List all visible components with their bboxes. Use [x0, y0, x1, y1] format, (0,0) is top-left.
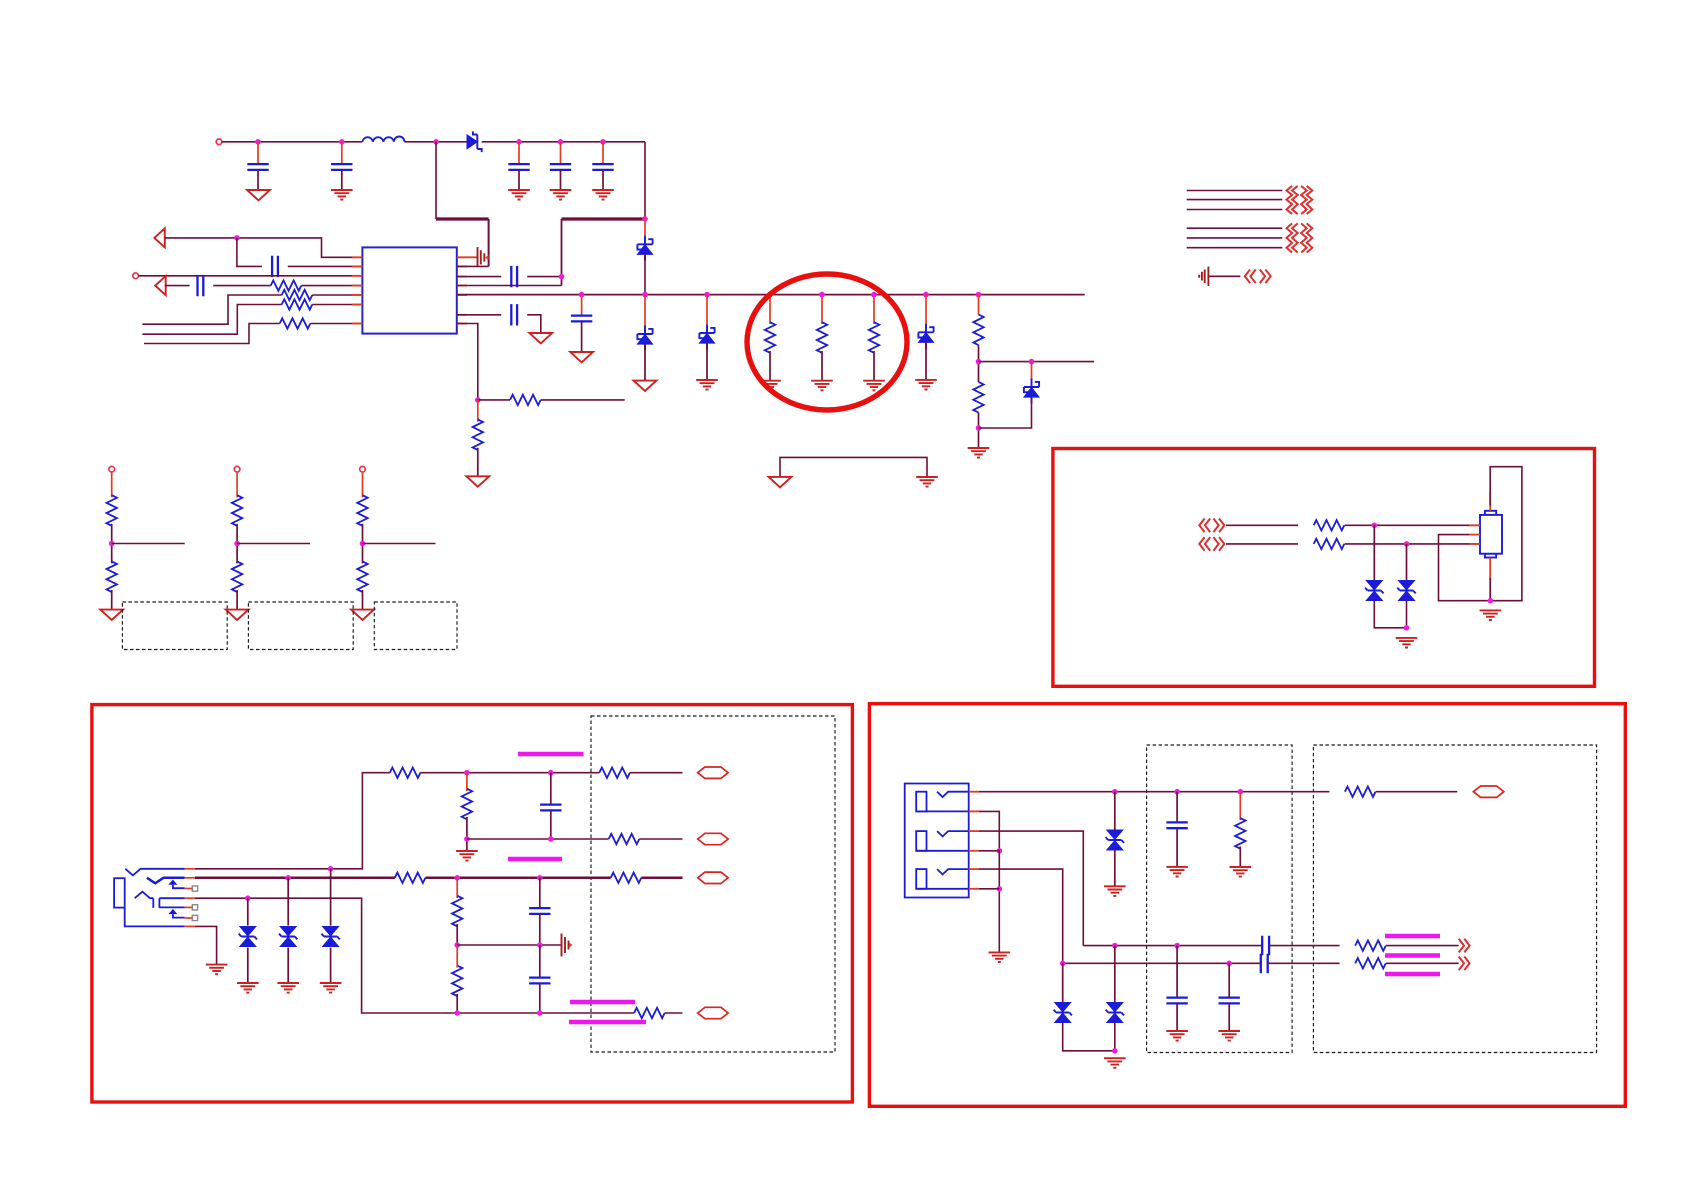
resistor R18: [452, 896, 462, 927]
wire R7 to ground: [769, 351, 771, 381]
wire to ground 1: [111, 590, 113, 610]
wire R4 to IC pin7: [310, 323, 362, 325]
IC U1: [362, 247, 456, 333]
junction node: [433, 139, 439, 145]
wire divider node 3: [362, 524, 364, 564]
resistor R5: [510, 395, 541, 405]
wire IC pin to node: [457, 285, 562, 287]
wire row2: [467, 838, 609, 840]
resistor R20: [1314, 520, 1345, 530]
divider resistor R2a: [232, 495, 242, 526]
input arrow P1: [154, 228, 165, 247]
divider resistor R1b: [107, 561, 117, 592]
wire C3 to ground: [518, 169, 520, 190]
junction node: [997, 848, 1003, 854]
ground (power) C9: [529, 333, 552, 343]
output oval A: [698, 767, 728, 778]
resistor R8: [817, 322, 827, 353]
divider R1a lead: [111, 472, 113, 497]
resistor R6: [473, 419, 483, 450]
IC pin stubs: [352, 257, 467, 323]
junction node: [454, 875, 460, 881]
audio jack J4: [114, 869, 185, 927]
wire sleeve: [195, 926, 217, 964]
earth ground rail: [916, 477, 938, 487]
wire C8 to node: [527, 276, 561, 278]
TVS D8 lead: [1406, 544, 1408, 581]
wire to ground 3: [362, 590, 364, 610]
wire bottom row: [442, 1012, 634, 1014]
junction node: [454, 942, 460, 948]
TVS diode D9: [1106, 830, 1124, 850]
capacitor C13 lead: [539, 945, 541, 978]
wire R14 to node: [466, 817, 468, 851]
earth ground D4: [696, 380, 718, 390]
resistor R24: [1355, 940, 1386, 950]
earth ground TVS: [320, 983, 342, 993]
resistor R18 lead: [456, 878, 458, 898]
wire into dash box: [591, 772, 599, 774]
resistor R2: [282, 290, 313, 300]
wire down to pins: [561, 219, 563, 286]
input terminal J2: [133, 273, 139, 279]
ground (power) divider 1: [100, 610, 123, 620]
zener diode D4: [699, 325, 714, 350]
wire divider tap 3: [363, 543, 436, 545]
junction node: [997, 886, 1003, 892]
red box (ESD section): [1053, 449, 1595, 687]
resistor R25: [1355, 958, 1386, 968]
capacitor C12 lead: [539, 878, 541, 908]
earth ground C17: [1218, 1031, 1240, 1041]
divider resistor R3b: [357, 561, 367, 592]
dashed box A: [122, 602, 227, 650]
wire R23 to oval: [1376, 791, 1458, 793]
wire D11 to node: [1114, 1023, 1116, 1051]
divider terminal 2: [234, 466, 240, 472]
junction node: [234, 541, 240, 547]
junction node: [109, 541, 115, 547]
output oval D: [698, 1007, 728, 1018]
capacitor C17 lead: [1228, 963, 1230, 997]
earth ground C2: [331, 190, 353, 200]
wire rail corner down: [644, 142, 646, 219]
connector J3: [1480, 511, 1502, 558]
diode D1 (schottky): [467, 131, 482, 152]
no-connect pads: [192, 886, 197, 921]
capacitor C4: [550, 164, 571, 170]
resistor R19a: [452, 966, 462, 997]
divider resistor R3a: [357, 495, 367, 526]
capacitor C18: [1166, 822, 1187, 828]
wire C13 to row: [539, 983, 541, 1013]
earth ground J3: [1480, 610, 1502, 620]
jack pad stubs: [185, 869, 195, 927]
divider R3a lead: [362, 472, 364, 497]
resistor R11: [973, 382, 983, 413]
wire R18 to node: [456, 924, 458, 945]
dashed box E: [1147, 745, 1293, 1053]
earth ground R26: [1230, 867, 1252, 877]
divider resistor R1a: [107, 495, 117, 526]
wire D1 to corner: [482, 141, 645, 143]
TVS D11 lead: [1114, 946, 1116, 1003]
off-page bus lines 2: [1187, 228, 1283, 248]
wire C16 to ground: [1176, 1003, 1178, 1031]
junction node: [245, 895, 251, 901]
off-page bus lines 1: [1187, 191, 1283, 210]
connector J3 pin stubs: [1469, 492, 1490, 580]
wire main bus: [457, 294, 1085, 296]
signal ground symbol 2: [1199, 267, 1208, 287]
wire R25 to chevron: [1386, 962, 1459, 964]
wire TVS to ground: [247, 948, 249, 983]
inductor L1: [362, 137, 404, 142]
wire to R5: [478, 399, 510, 401]
wire thick VCC left: [436, 217, 489, 220]
resistor R9: [869, 322, 879, 353]
capacitor C14 (series): [1262, 936, 1269, 956]
resistor R15: [609, 834, 640, 844]
wire thick VCC right: [562, 217, 646, 220]
wire arrow1 to IC pin1: [165, 238, 363, 257]
wire J3 bottom: [1489, 578, 1491, 601]
divider R2a lead: [236, 472, 238, 497]
wire J5 pin3: [979, 831, 1083, 946]
IC pin stub to antenna: [457, 256, 478, 258]
junction node: [559, 274, 565, 280]
capacitor C12: [529, 908, 550, 914]
zener D2 lead: [644, 218, 646, 244]
earth ground C3: [508, 190, 530, 200]
capacitor C9: [511, 304, 517, 325]
wire R9 to ground: [873, 351, 875, 381]
resistor R16: [395, 873, 426, 883]
capacitor C3: [508, 164, 529, 170]
resistor R21: [1314, 539, 1345, 549]
wire C4 to ground: [560, 169, 562, 190]
capacitor C18 lead: [1176, 792, 1178, 823]
wire D8 to node: [1406, 601, 1408, 628]
earth ground switch: [989, 952, 1011, 962]
capacitor C2: [331, 164, 352, 170]
dashed box F: [1313, 745, 1596, 1053]
capacitor C3 lead: [518, 142, 520, 165]
wire pin1 in box: [1147, 791, 1330, 793]
connector J5 pin stubs: [969, 792, 979, 889]
magenta bar 1: [518, 752, 584, 757]
ground (power) rail: [769, 477, 792, 487]
wire R17 to oval (thick): [641, 877, 682, 880]
wire row tip: [195, 773, 390, 869]
wire R26 to ground: [1239, 847, 1241, 868]
wire divider node 2: [236, 524, 238, 564]
capacitor C15 (series): [1261, 954, 1268, 974]
connector J5: [905, 784, 969, 898]
junction node: [1112, 943, 1118, 949]
earth ground C5: [592, 190, 614, 200]
wire R19a to row: [456, 994, 458, 1013]
input arrow P2: [155, 276, 166, 295]
wire D9 to ground: [1114, 850, 1116, 886]
resistor R6 lead: [477, 400, 479, 422]
junction node: [548, 836, 554, 842]
capacitor C6: [272, 256, 278, 277]
off-page chevrons 2: [1287, 223, 1313, 252]
capacitor C2 lead: [341, 142, 343, 165]
wire C12 to node: [539, 914, 541, 945]
capacitor C17: [1219, 998, 1240, 1004]
wire C10 to ground: [581, 321, 583, 352]
wire IC to C9: [457, 314, 501, 316]
capacitor C11 lead: [550, 773, 552, 805]
wire J5 pin4: [979, 850, 999, 852]
wire R10 to node: [978, 345, 980, 382]
wire C9 to ground: [527, 315, 541, 333]
TVS diode D7: [1365, 581, 1383, 601]
junction node: [819, 292, 825, 298]
wire R16 right (thick): [425, 877, 610, 880]
wire row R out: [1268, 962, 1340, 964]
ground (power) divider 3: [351, 610, 374, 620]
junction node: [579, 292, 585, 298]
zener diode D2: [637, 236, 652, 261]
resistor R17: [611, 873, 642, 883]
junction node: [537, 942, 543, 948]
dashed box D: [591, 716, 835, 1052]
resistor R26 lead: [1239, 792, 1241, 821]
wire J2 to IC pin3: [138, 275, 362, 277]
highlight ellipse: [747, 274, 907, 410]
resistor R8 lead: [821, 295, 823, 324]
resistor R22: [634, 1008, 665, 1018]
wire divider tap 2: [237, 543, 310, 545]
resistor R7 lead: [769, 295, 771, 324]
earth ground C4: [550, 190, 572, 200]
wire VCC branch down: [435, 142, 437, 219]
resistor R4: [280, 318, 311, 328]
junction node: [537, 1010, 543, 1016]
junction node: [1238, 789, 1244, 795]
resistor R14 lead: [466, 773, 468, 791]
wire L1 to D1: [405, 141, 468, 143]
earth ground R9: [863, 381, 885, 391]
resistor R23: [1345, 787, 1376, 797]
junction node: [475, 397, 481, 403]
resistor R13: [599, 768, 630, 778]
wire R22 to oval: [665, 1012, 683, 1014]
wire IC pin7r down: [457, 324, 478, 400]
junction node: [464, 770, 470, 776]
TVS lead: [247, 898, 249, 925]
junction node: [1226, 961, 1232, 967]
junction node: [548, 770, 554, 776]
wire D5 to ground: [925, 342, 927, 380]
capacitor C1 lead: [257, 142, 259, 165]
capacitor C4 lead: [560, 142, 562, 165]
earth ground TVS: [237, 983, 259, 993]
wire row L: [1083, 945, 1261, 947]
wire arrow2 to C7: [165, 285, 190, 287]
earth ground R14: [456, 851, 478, 861]
junction node: [516, 139, 522, 145]
junction node: [600, 139, 606, 145]
earth ground D5: [915, 380, 937, 390]
TVS diode D8: [1397, 581, 1415, 601]
magenta bar 6: [1385, 953, 1440, 958]
capacitor C13: [529, 978, 550, 984]
wire R20 to connector: [1345, 524, 1480, 526]
capacitor C16: [1166, 998, 1187, 1004]
wire to R21: [1226, 543, 1298, 545]
wire D6 to node: [979, 397, 1032, 428]
wire J3 top loop: [1439, 467, 1522, 601]
wire R24 to chevron: [1386, 945, 1459, 947]
TVS D9 lead: [1114, 792, 1116, 830]
wire C2 to ground: [341, 169, 343, 190]
junction node: [558, 139, 564, 145]
junction node: [976, 359, 982, 365]
wire J5 pin6: [979, 888, 999, 890]
wire C17 to ground: [1228, 1003, 1230, 1031]
wire D2 to bus: [644, 254, 646, 295]
capacitor C11: [540, 805, 561, 811]
chevron out R: [1459, 957, 1470, 971]
junction node: [871, 292, 877, 298]
junction node: [923, 292, 929, 298]
wire TVS to ground: [330, 948, 332, 983]
TVS diode D10: [1054, 1003, 1072, 1023]
wire R11 to ground: [978, 413, 980, 449]
wire divider node 1: [111, 524, 113, 564]
junction node: [360, 541, 366, 547]
wire R13 to oval: [630, 772, 683, 774]
zener D5 lead: [925, 295, 927, 333]
ground (power) divider 2: [226, 610, 249, 620]
junction node: [767, 292, 773, 298]
wire down to pin: [488, 219, 490, 266]
resistor R14: [462, 789, 472, 820]
output oval B: [698, 833, 728, 844]
magenta bar 5: [1385, 934, 1440, 939]
junction node: [537, 875, 543, 881]
junction node: [255, 139, 261, 145]
resistor R10 lead: [978, 295, 980, 315]
junction node: [234, 235, 240, 241]
wire R6 to ground: [477, 448, 479, 477]
capacitor C5 lead: [602, 142, 604, 165]
TVS diode: [321, 927, 339, 947]
divider terminal 3: [360, 466, 366, 472]
junction node: [642, 216, 648, 222]
zener D4 lead: [706, 295, 708, 333]
zener D6 lead: [1031, 362, 1033, 387]
ground (power) D3: [634, 381, 657, 391]
wire switch gnd: [998, 850, 1000, 953]
earth ground sleeve: [206, 965, 228, 975]
dashed box C: [374, 602, 457, 650]
resistor R9 lead: [873, 295, 875, 324]
capacitor C10 lead: [581, 295, 583, 316]
wire node to R19a: [456, 945, 458, 968]
divider resistor R2b: [232, 561, 242, 592]
earth ground R8: [811, 381, 833, 391]
capacitor C1: [247, 164, 268, 170]
wire row R: [1063, 962, 1260, 964]
wire row L out: [1269, 945, 1340, 947]
junction node: [1404, 541, 1410, 547]
wire bus line c: [144, 324, 280, 344]
junction node: [1060, 961, 1066, 967]
red box (audio jack section): [92, 705, 853, 1102]
wire D7 to node: [1374, 601, 1406, 628]
off-page chevron pair A: [1199, 519, 1210, 533]
wire J5 pin2: [979, 811, 999, 850]
off-page chevrons 1: [1287, 186, 1313, 214]
capacitor C5: [592, 164, 613, 170]
dashed box B: [248, 602, 353, 650]
red box (connector section): [869, 704, 1625, 1107]
resistor R12: [390, 768, 421, 778]
resistor R1: [271, 280, 302, 290]
wire J5 pin5: [979, 869, 1063, 963]
earth ground TVS: [1396, 638, 1418, 648]
TVS D10 lead: [1062, 963, 1064, 1002]
wire C1 to ground: [257, 169, 259, 190]
TVS lead: [330, 869, 332, 926]
wire C6 to IC pin2: [288, 265, 363, 267]
wire mid node row: [457, 944, 561, 946]
wire R15 to oval: [639, 838, 682, 840]
TVS diode D11: [1106, 1003, 1124, 1023]
earth ground C18: [1166, 867, 1188, 877]
wire divider tap 1: [112, 543, 185, 545]
ground rail wire: [780, 457, 927, 477]
TVS D7 lead: [1373, 525, 1375, 580]
wire row ring (thick): [195, 877, 395, 880]
wire to C6: [237, 238, 262, 267]
wire row mid: [195, 898, 442, 1013]
earth ground R7: [759, 381, 781, 391]
wire R8 to ground: [821, 351, 823, 381]
junction node: [1372, 523, 1378, 529]
ground (power) C10: [570, 352, 593, 362]
wire C7 to R1: [213, 285, 271, 287]
signal ground symbol 3: [562, 934, 573, 957]
wire IC to C8: [457, 276, 501, 278]
resistor R26: [1235, 818, 1245, 849]
wire top rail: [222, 141, 362, 143]
junction node: [976, 292, 982, 298]
wire R12 to nodes: [420, 772, 591, 774]
wire R21 to connector: [1345, 543, 1480, 545]
chevron out L: [1459, 939, 1470, 953]
wire to ground 2: [236, 590, 238, 610]
junction node: [704, 292, 710, 298]
wire to R20: [1226, 524, 1298, 526]
resistor R10: [973, 315, 983, 346]
wire TVS to ground: [287, 948, 289, 983]
wire bus line b: [142, 305, 281, 335]
resistor R3: [282, 299, 313, 309]
earth ground D10 D11: [1104, 1058, 1126, 1068]
wire J5 pin1: [979, 791, 1147, 793]
junction node: [328, 866, 334, 872]
junction node: [285, 875, 291, 881]
junction node: [464, 836, 470, 842]
junction node: [1174, 943, 1180, 949]
magenta bar 3: [570, 1000, 635, 1005]
